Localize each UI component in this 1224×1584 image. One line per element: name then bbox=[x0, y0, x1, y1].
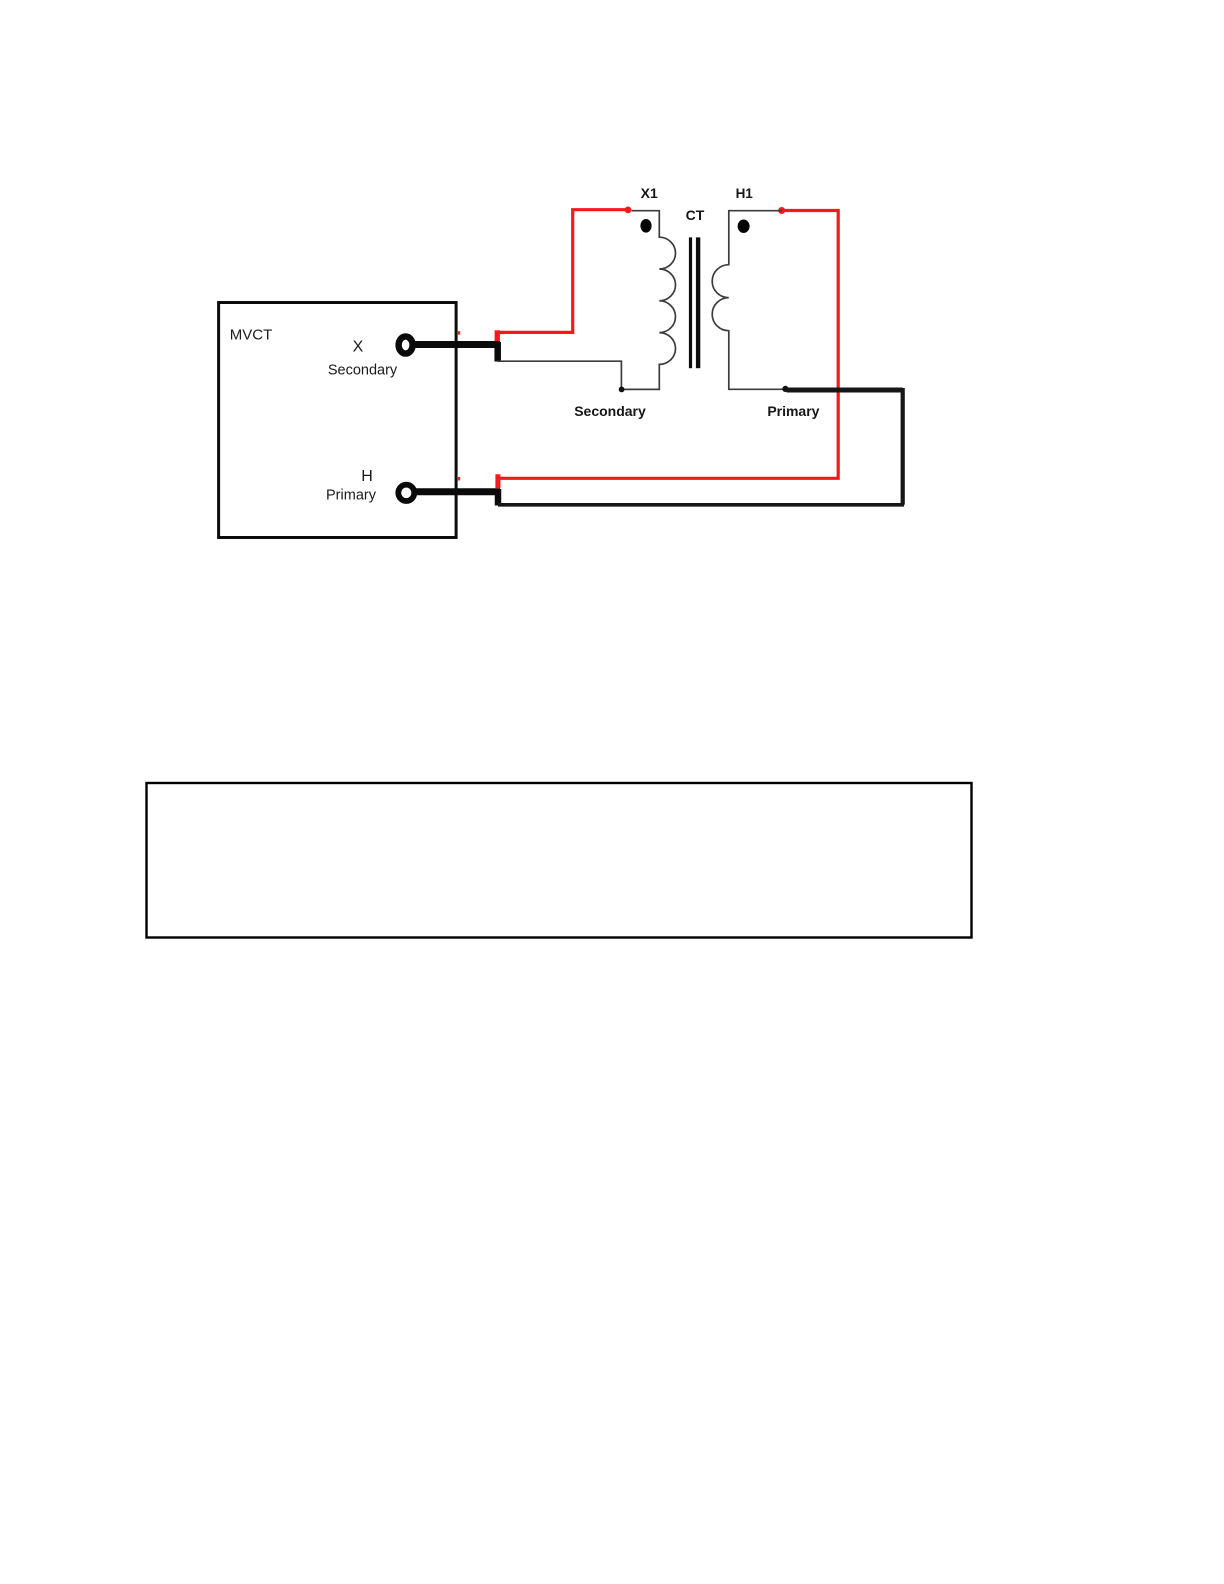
CT primary winding (right) bbox=[712, 211, 786, 390]
CT core (two lamination bars) bbox=[689, 237, 692, 368]
wire: heavy black stub down at end of X lead bbox=[494, 342, 501, 362]
svg-text:Secondary: Secondary bbox=[574, 403, 646, 419]
terminal X ring lug bbox=[399, 336, 413, 353]
svg-text:X1: X1 bbox=[641, 185, 658, 201]
svg-text:CT: CT bbox=[686, 207, 705, 223]
empty note box bbox=[147, 783, 972, 938]
wire: red lead from H1 terminal to H lead bbox=[499, 211, 838, 479]
red connector stub at H lead end bbox=[495, 474, 500, 488]
red terminal dot at X1 bbox=[625, 207, 632, 214]
svg-text:H1: H1 bbox=[736, 186, 754, 201]
wire: heavy black stub down at end of H lead bbox=[495, 489, 502, 506]
svg-text:MVCT: MVCT bbox=[230, 327, 273, 344]
svg-text:Secondary: Secondary bbox=[328, 363, 398, 379]
svg-text:X: X bbox=[353, 339, 364, 356]
wire: heavy black test lead from X terminal bbox=[411, 341, 500, 348]
red artifact dot on box edge at H lead bbox=[457, 477, 460, 480]
svg-text:H: H bbox=[361, 468, 373, 485]
terminal H ring lug bbox=[398, 485, 414, 501]
wire: black return from primary bottom going right bbox=[787, 388, 903, 393]
svg-text:Primary: Primary bbox=[326, 488, 377, 504]
red terminal dot at H1 bbox=[778, 207, 785, 214]
red connector stub at X lead end bbox=[495, 330, 500, 341]
junction dot at secondary winding bottom corner bbox=[619, 387, 625, 393]
svg-text:Primary: Primary bbox=[767, 403, 819, 419]
red artifact dot on box edge at X lead bbox=[457, 331, 460, 334]
polarity dot X1 (secondary) bbox=[640, 219, 651, 233]
MVCT test-set box bbox=[219, 303, 457, 538]
wire: black return vertical on far right bbox=[901, 388, 905, 505]
wire: black return bottom horizontal back to H lead bbox=[498, 503, 904, 507]
CT secondary winding (left) with return wire to X lead bbox=[497, 211, 675, 390]
junction dot at primary winding bottom bbox=[782, 386, 788, 392]
wire: heavy black test lead from H terminal bbox=[411, 488, 500, 495]
polarity dot H1 (primary) bbox=[738, 220, 750, 233]
wire: red lead from X lead to X1 terminal bbox=[497, 210, 627, 340]
